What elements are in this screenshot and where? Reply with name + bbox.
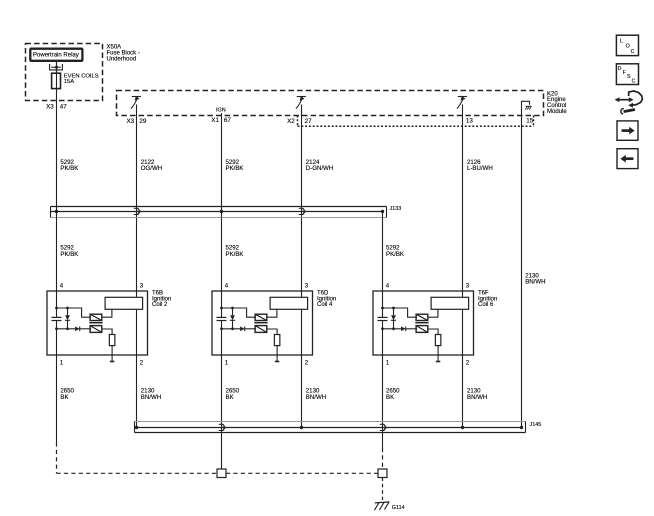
svg-text:PK/BK: PK/BK xyxy=(226,251,244,258)
svg-text:S: S xyxy=(627,74,631,80)
svg-text:BK: BK xyxy=(226,394,234,401)
svg-text:X1: X1 xyxy=(211,117,219,124)
svg-text:BK: BK xyxy=(60,394,68,401)
svg-text:29: 29 xyxy=(139,118,147,125)
svg-text:Underhood: Underhood xyxy=(107,57,137,63)
svg-text:BN/WH: BN/WH xyxy=(525,279,545,286)
svg-text:47: 47 xyxy=(60,103,68,110)
svg-text:15A: 15A xyxy=(64,79,74,85)
svg-text:27: 27 xyxy=(305,118,313,125)
svg-text:OG/WH: OG/WH xyxy=(141,165,162,172)
svg-text:C: C xyxy=(631,49,635,55)
svg-text:PK/BK: PK/BK xyxy=(60,165,78,172)
svg-text:BN/WH: BN/WH xyxy=(467,394,487,401)
svg-text:O: O xyxy=(626,44,630,50)
svg-text:F: F xyxy=(623,70,626,76)
svg-text:BK: BK xyxy=(386,394,394,401)
svg-text:PK/BK: PK/BK xyxy=(226,165,244,172)
svg-text:IGN: IGN xyxy=(216,108,226,114)
svg-text:D-GN/WH: D-GN/WH xyxy=(306,165,333,172)
svg-text:Powertrain Relay: Powertrain Relay xyxy=(33,53,79,59)
svg-text:D: D xyxy=(618,66,622,72)
svg-text:PK/BK: PK/BK xyxy=(60,251,78,258)
svg-text:L-BU/WH: L-BU/WH xyxy=(467,165,493,172)
svg-text:PK/BK: PK/BK xyxy=(386,251,404,258)
svg-text:X2: X2 xyxy=(287,118,295,125)
svg-text:J133: J133 xyxy=(390,206,402,212)
svg-text:J145: J145 xyxy=(530,422,542,428)
svg-text:X3: X3 xyxy=(46,103,54,110)
svg-text:G114: G114 xyxy=(392,505,405,511)
svg-text:Coil 2: Coil 2 xyxy=(152,302,168,308)
svg-text:67: 67 xyxy=(224,117,232,124)
svg-text:Coil 4: Coil 4 xyxy=(317,302,333,308)
svg-text:C: C xyxy=(632,78,636,84)
svg-text:Module: Module xyxy=(547,109,567,115)
svg-text:X3: X3 xyxy=(126,118,134,125)
svg-text:Coil 6: Coil 6 xyxy=(478,302,494,308)
svg-text:13: 13 xyxy=(466,118,474,125)
svg-text:BN/WH: BN/WH xyxy=(306,394,326,401)
svg-text:L: L xyxy=(620,39,623,45)
svg-text:15: 15 xyxy=(526,117,534,124)
svg-text:BN/WH: BN/WH xyxy=(141,394,161,401)
